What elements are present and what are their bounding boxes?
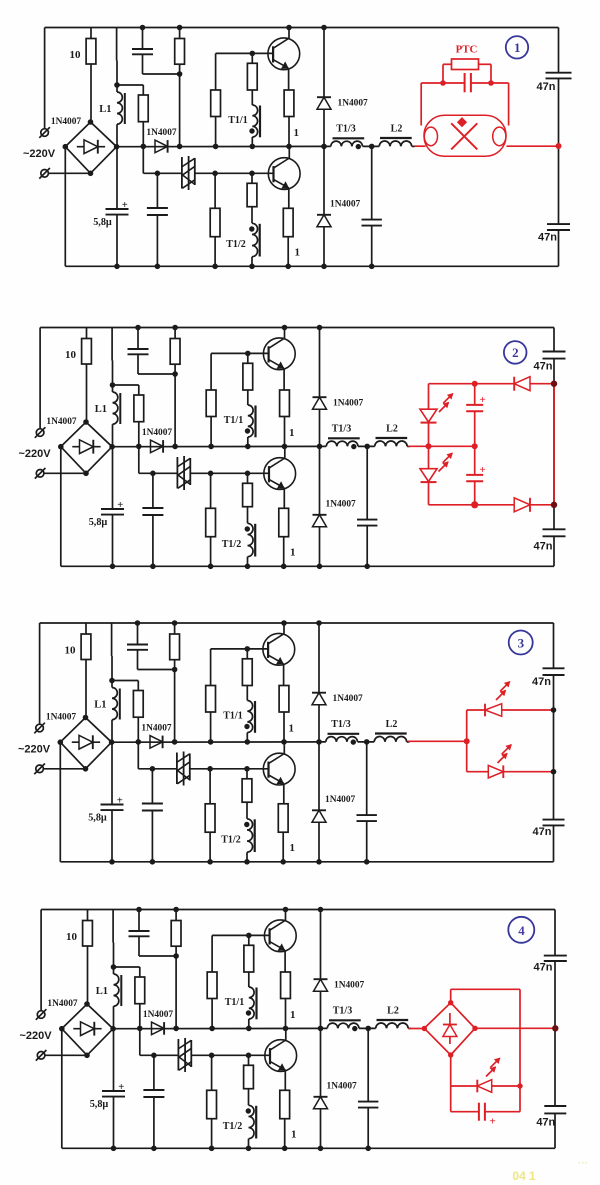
capacitor C5 47n top panel1 <box>553 73 565 79</box>
capacitor C9 electrolytic lower <box>474 446 476 475</box>
wire lamp output red <box>507 145 559 147</box>
wire feed red panel4 <box>409 1028 425 1030</box>
capacitor C6 47n bottom panel4 <box>549 1106 561 1113</box>
node lamp output on right rail <box>556 143 562 149</box>
wire lower LED branch <box>467 771 489 773</box>
wire lamp feed red <box>415 145 426 147</box>
capacitor C6 47n bottom panel3 <box>548 820 560 826</box>
wire feed red panel2 <box>408 445 474 447</box>
svg-text:3: 3 <box>518 635 525 650</box>
panel 3 anti-parallel LED output stage <box>408 631 565 838</box>
capacitor C7 starter <box>464 73 466 92</box>
node starter right <box>488 80 494 86</box>
bridge rectifier red diamond <box>424 1003 475 1055</box>
lamp EL1 envelope <box>424 115 506 156</box>
badge panel number 4 <box>508 917 534 943</box>
badge panel number 1 <box>506 36 528 58</box>
badge panel number 2 <box>504 341 527 364</box>
wire lamp right top lead <box>508 83 510 126</box>
svg-text:1: 1 <box>514 40 521 55</box>
schematic panel 4 common circuit <box>19 907 555 1151</box>
wire LED split verticals <box>466 710 468 772</box>
node red bridge right <box>472 1026 477 1031</box>
svg-text:47n: 47n <box>538 231 557 243</box>
node LED mid tap <box>426 443 432 449</box>
svg-text:47n: 47n <box>533 826 552 838</box>
wire left LED string <box>428 384 430 410</box>
svg-text:2: 2 <box>512 345 519 360</box>
panel 1 lamp output stage <box>415 36 572 243</box>
capacitor C6 47n bottom panel2 <box>548 529 560 536</box>
svg-text:···: ··· <box>578 1158 588 1169</box>
LED D2 lower <box>420 469 437 482</box>
wire red bridge bottom drop <box>450 1055 452 1112</box>
svg-text:47n: 47n <box>537 81 556 93</box>
lamp dot marker <box>457 117 467 127</box>
diode D4 bottom red <box>514 498 530 512</box>
capacitor C5 47n top panel2 <box>548 352 560 359</box>
capacitor C10 electrolytic <box>451 1111 479 1113</box>
wire top red bus <box>429 383 515 385</box>
node C9 bottom <box>471 501 478 508</box>
LED D1 upper <box>485 704 502 717</box>
LED D2 arrows <box>439 462 449 472</box>
lamp electrode right <box>493 127 506 146</box>
LED D1 arrows <box>496 691 506 701</box>
svg-text:47n: 47n <box>534 541 553 553</box>
node upper branch right rail <box>551 707 557 713</box>
svg-text:47n: 47n <box>534 961 553 973</box>
wire red right rail segment <box>553 384 555 505</box>
node C8 top <box>472 381 478 387</box>
node red bridge top <box>448 1000 453 1005</box>
wire lamp left top lead <box>420 83 422 126</box>
svg-text:+: + <box>479 464 485 476</box>
wire LED branch <box>451 1085 478 1087</box>
svg-text:47n: 47n <box>532 676 551 688</box>
wire red bridge right out <box>475 1027 555 1029</box>
diode D3 top red <box>514 377 530 391</box>
node output on right rail <box>552 1025 558 1031</box>
svg-text:47n: 47n <box>536 1116 555 1128</box>
LED D2 arrows <box>498 754 508 764</box>
lamp electrode left <box>424 127 437 146</box>
svg-text:47n: 47n <box>534 360 553 372</box>
node LED right <box>517 1083 522 1088</box>
svg-text:4: 4 <box>518 923 525 938</box>
svg-text:+: + <box>479 394 485 406</box>
badge panel number 3 <box>509 631 533 655</box>
LED D1 <box>477 1080 491 1093</box>
panel 4 red bridge LED output stage <box>409 917 567 1129</box>
LED D1 arrows <box>439 403 449 413</box>
schematic panel 2 common circuit <box>18 325 554 569</box>
wire upper LED branch <box>467 709 485 711</box>
node bus top right <box>551 381 557 387</box>
resistor PTC thermistor <box>452 59 479 70</box>
capacitor C6 47n bottom panel1 <box>553 224 565 230</box>
wire feed red panel3 <box>408 740 467 742</box>
wire PTC loop <box>442 64 444 83</box>
wire red bridge top loop <box>450 989 452 1002</box>
bridge red internal diode <box>449 1013 451 1044</box>
node red bridge left <box>422 1026 427 1031</box>
svg-text:04 1: 04 1 <box>512 1169 536 1183</box>
lamp discharge cross <box>451 123 477 149</box>
capacitor C5 47n top panel3 <box>548 668 560 675</box>
node lower branch right rail <box>551 769 557 775</box>
svg-text:+: + <box>490 1115 496 1127</box>
LED D1 upper <box>420 409 437 422</box>
panel 2 LED bridge output stage <box>408 341 565 552</box>
capacitor C5 47n top panel4 <box>549 956 561 961</box>
node LED split <box>464 738 470 744</box>
LED D2 lower <box>488 765 503 778</box>
wire bottom red bus <box>429 504 515 506</box>
schematic panel 3 common circuit <box>18 620 554 864</box>
node starter left <box>440 80 446 86</box>
svg-text:PTC: PTC <box>456 44 478 56</box>
LED D1 arrows <box>486 1067 496 1077</box>
node bus bottom right <box>551 502 557 508</box>
capacitor C8 electrolytic upper <box>474 384 476 405</box>
node caps mid <box>472 443 478 449</box>
node red bridge bottom <box>448 1052 453 1057</box>
schematic panel 1 common circuit <box>23 25 559 269</box>
